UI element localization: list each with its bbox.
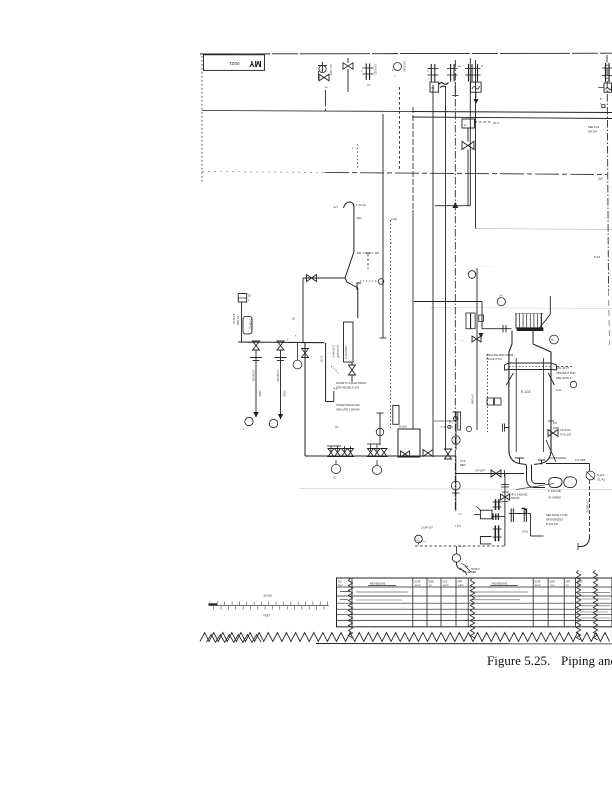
block valve on x=456 drop <box>455 456 457 511</box>
svg-text:INSULATE 2-DR-044: INSULATE 2-DR-044 <box>336 409 360 412</box>
svg-text:x: x <box>427 70 429 73</box>
svg-text:BY: BY <box>429 585 432 587</box>
svg-text:l d.: l d. <box>367 83 371 87</box>
left side nozzle <box>505 427 509 429</box>
svg-text:x [x] x: x [x] x <box>455 525 462 528</box>
svg-text:CONDENSATE: CONDENSATE <box>549 457 567 460</box>
svg-text:SC-41: SC-41 <box>597 478 605 482</box>
svg-text:Piping and: Piping and <box>561 653 612 668</box>
drain valve pair 1 <box>330 446 332 452</box>
pump suction vertical x=505 <box>504 474 506 547</box>
valve cluster V3 x=368 <box>365 64 367 81</box>
valve bars stack B <box>494 526 496 542</box>
svg-text:- x -: - x - <box>286 339 290 342</box>
drop line 2 with hose connection <box>275 357 287 359</box>
svg-text:DR 104: DR 104 <box>588 130 597 134</box>
header end elbow down <box>325 343 327 402</box>
valve cluster V4 x=397 <box>394 63 402 71</box>
instrument air dashed line y=546 <box>415 545 505 547</box>
svg-text:SEE 5-24: SEE 5-24 <box>588 125 600 129</box>
dotted instrument line x=390 <box>390 220 392 428</box>
thermowell rect pair <box>466 313 470 329</box>
svg-text:2-CW-013: 2-CW-013 <box>249 319 251 330</box>
controller bubble LC <box>415 535 423 543</box>
elbow down to header <box>302 278 304 342</box>
svg-text:2-P-1081-2": 2-P-1081-2" <box>586 500 589 513</box>
vertical pipe x=383 <box>382 114 384 338</box>
dotted stub above hook <box>357 144 359 170</box>
svg-text:STEAM TRACE AND: STEAM TRACE AND <box>336 404 360 407</box>
CWR labelled capsule <box>243 316 252 334</box>
bottoms pipe y=456 <box>305 455 456 457</box>
hook vent pipe <box>344 202 354 208</box>
svg-text:. . . . . . . . . .: . . . . . . . . . . <box>478 264 493 268</box>
sample bubble B <box>372 465 381 474</box>
svg-text:1-T2-16: 1-T2-16 <box>356 203 366 207</box>
svg-text:{ x-x: { x-x <box>459 545 464 548</box>
vessel shell <box>509 344 551 465</box>
bottom outlet pipe <box>526 465 528 480</box>
riser to bottoms line <box>304 342 306 456</box>
control valve cluster V1 x=324 <box>318 65 327 67</box>
svg-text:APP: APP <box>458 581 463 584</box>
svg-text:LG: LG <box>448 420 452 423</box>
level glass column <box>379 413 381 445</box>
Z-bend pipe <box>303 252 354 278</box>
right edge valve cluster x=606 <box>605 63 607 82</box>
svg-text:CKD: CKD <box>550 585 555 587</box>
valve on riser <box>302 349 309 358</box>
svg-text:4x7: 4x7 <box>334 205 339 209</box>
cross fitting <box>501 494 510 500</box>
instrument box x=475 <box>471 82 482 92</box>
tube bundle flange bars <box>492 514 494 520</box>
faint scan line y=489 <box>300 489 612 490</box>
left bottom nozzle <box>515 457 524 459</box>
svg-text:(92): (92) <box>357 216 362 220</box>
svg-text:REV: REV <box>338 585 343 587</box>
svg-text:BY: BY <box>566 585 569 587</box>
svg-text:P-104 A/B: P-104 A/B <box>546 522 558 526</box>
revision table frame <box>337 578 612 627</box>
branch y=421 <box>434 420 455 422</box>
drawing top border line <box>200 52 612 55</box>
drop x=590 <box>589 464 591 472</box>
svg-text:DATE: DATE <box>535 581 541 584</box>
block valve at drum outlet <box>423 450 433 457</box>
svg-text:2-DR-044-2: 2-DR-044-2 <box>332 345 335 358</box>
dash-dot line x=455 <box>454 60 456 511</box>
svg-text:TRACE (TYP): TRACE (TYP) <box>486 358 502 361</box>
vertical pipe x=413 <box>412 107 414 210</box>
svg-text:4"x3": 4"x3" <box>460 459 466 463</box>
gauge glass rect <box>458 412 461 430</box>
svg-text:LO: LO <box>333 477 336 480</box>
svg-text:x: x <box>248 299 250 302</box>
vertical pipe x=475 <box>475 60 477 229</box>
valve bars stack A <box>495 499 497 510</box>
right bottom nozzle <box>538 459 545 461</box>
vessel top flange (dark) <box>517 328 543 331</box>
svg-text:2-LNF-107: 2-LNF-107 <box>421 527 434 530</box>
svg-text:PG: PG <box>553 421 557 425</box>
svg-text:MIN. 10 FT: MIN. 10 FT <box>556 366 569 370</box>
instrument bubble TI-31 <box>293 360 302 369</box>
faint scan line y=308 <box>430 308 612 309</box>
vertical tear zigzags through table <box>348 578 352 638</box>
torn edge zigzag <box>200 633 610 642</box>
handwritten note scribble <box>439 83 449 85</box>
tray ring band <box>509 362 551 364</box>
svg-text:4-CW-011: 4-CW-011 <box>232 314 234 325</box>
svg-text:(2): (2) <box>335 425 338 429</box>
vertical bowtie x=448 <box>445 449 452 459</box>
svg-text:D-104: D-104 <box>399 425 407 429</box>
svg-text:HOSE: HOSE <box>282 390 285 397</box>
scale bar <box>209 605 329 607</box>
vertical pipe x=470 <box>469 58 471 206</box>
svg-text:0021: 0021 <box>229 61 240 66</box>
header branch valves <box>253 341 260 350</box>
vertical pipe x=433 <box>432 85 434 450</box>
long dash-dot boundary line y=171 <box>202 172 325 173</box>
valve cluster V7 x=473 <box>468 64 470 82</box>
svg-text:2-P-1066: 2-P-1066 <box>471 394 474 405</box>
svg-text:DATE: DATE <box>415 581 421 584</box>
svg-text:DATE: DATE <box>458 584 464 587</box>
svg-text:+: + <box>391 241 393 245</box>
svg-text:S-113: S-113 <box>597 473 605 477</box>
svg-text:ss: ss <box>325 86 328 89</box>
gauge boxes <box>487 398 494 405</box>
gate valve V2 x=348 <box>343 63 353 69</box>
vessel neck <box>511 331 513 345</box>
svg-text:z: z <box>352 147 354 150</box>
reflux line y=474 <box>456 473 524 475</box>
svg-text:N-12: N-12 <box>556 389 562 392</box>
svg-text:APPD: APPD <box>535 584 541 587</box>
inner shell walls <box>515 358 517 452</box>
small drain box <box>480 537 491 544</box>
svg-text:SEE NOTE 3: SEE NOTE 3 <box>556 376 572 380</box>
svg-text:LI: LI <box>464 123 467 127</box>
CWR spec block <box>238 294 247 303</box>
spool piece right <box>509 513 527 515</box>
vertical pipe x=445.5 <box>445 86 447 450</box>
svg-text:d: d <box>481 64 483 68</box>
svg-text:TO SEWER: TO SEWER <box>463 571 476 574</box>
dotted gauge line on shell <box>487 354 489 432</box>
cooling water header y=342 <box>238 341 325 344</box>
svg-text:SLOPE TO CLEAR DRAIN: SLOPE TO CLEAR DRAIN <box>336 382 366 385</box>
svg-text:$: $ <box>600 97 602 101</box>
dashed bubble (2) <box>466 426 471 431</box>
drain pigtail pump <box>452 554 460 562</box>
flange ticks on inlet <box>502 325 504 333</box>
bowtie below thermowell <box>472 336 481 342</box>
table column lines <box>351 578 353 627</box>
svg-text:x1-DR-041: x1-DR-041 <box>336 345 339 357</box>
sample bubble A <box>331 464 340 473</box>
valve to battery limit <box>548 430 558 437</box>
svg-text:CKD: CKD <box>443 582 448 584</box>
corner bracket <box>357 283 361 290</box>
vessel top hatch platform <box>516 313 543 315</box>
pump scrawl P-104 <box>549 477 562 487</box>
leader from lug to note <box>557 366 573 368</box>
reboiler exchanger shell <box>480 510 492 519</box>
dotted branch y=427 <box>441 426 453 428</box>
svg-text:FOR VESSEL E-103: FOR VESSEL E-103 <box>336 387 360 390</box>
svg-text:150#: 150# <box>553 426 559 430</box>
svg-text:2-CW-022: 2-CW-022 <box>276 370 279 382</box>
svg-text:l = l: l = l <box>458 513 462 516</box>
svg-text:HOSE: HOSE <box>258 390 261 397</box>
table row lines <box>337 586 612 588</box>
svg-text:2-P-1080: 2-P-1080 <box>575 459 586 462</box>
svg-text:3-VG-046-2": 3-VG-046-2" <box>345 345 348 359</box>
left border (dotted) <box>201 56 203 182</box>
instrument bubble at neck <box>550 335 559 344</box>
svg-text:PI: PI <box>552 338 555 342</box>
svg-text:AT GRADE: AT GRADE <box>548 496 561 500</box>
svg-text:WINTERIZING: WINTERIZING <box>546 518 563 522</box>
inline valve on y=278 <box>307 275 317 282</box>
svg-text:3-P-1079: 3-P-1079 <box>560 428 571 432</box>
svg-text:P-104 A/B: P-104 A/B <box>548 489 561 493</box>
table row smudges <box>340 591 350 593</box>
svg-text:1-CW: 1-CW <box>320 356 323 363</box>
gauge column x=456 y=412-446 <box>455 412 457 450</box>
svg-text:Figure 5.25.: Figure 5.25. <box>487 653 550 668</box>
svg-text:TO CWR: TO CWR <box>236 316 238 326</box>
svg-text:STRAIGHT RUN: STRAIGHT RUN <box>556 371 576 375</box>
svg-text:APP: APP <box>566 581 571 584</box>
svg-text:os: os <box>458 65 461 68</box>
svg-text:DWN: DWN <box>429 582 435 584</box>
svg-text:FI: FI <box>432 86 435 90</box>
main header pipe line y=111 <box>202 111 412 112</box>
dotted leader arc <box>331 366 339 374</box>
svg-text:(N-5): (N-5) <box>522 531 528 534</box>
product line y=463 <box>546 463 590 465</box>
instrument bubble on x477 <box>468 271 476 279</box>
instrument box FI x=434 <box>430 82 439 92</box>
svg-text:24": 24" <box>598 177 604 181</box>
dash-dot line x=607 <box>607 55 609 290</box>
seal pot <box>393 405 399 424</box>
svg-text:APPD: APPD <box>415 584 421 587</box>
instrument box LI <box>462 119 475 128</box>
bottom sheet line under tear <box>316 643 612 645</box>
svg-text:2-P-1031: 2-P-1031 <box>374 64 378 75</box>
svg-text:E3: E3 <box>248 295 252 298</box>
svg-text:NOTE 9: NOTE 9 <box>471 568 480 571</box>
svg-text:SEE NOTE 7 FOR: SEE NOTE 7 FOR <box>546 513 568 517</box>
svg-text:MY: MY <box>249 59 262 68</box>
control valve bubble FV <box>586 471 595 480</box>
svg-text:REVISIONS: REVISIONS <box>492 582 507 586</box>
svg-text:REVISIONS: REVISIONS <box>370 582 385 586</box>
skirt support legs <box>506 373 513 385</box>
svg-text:FEET: FEET <box>264 614 271 618</box>
valve pair 4 <box>381 449 387 457</box>
svg-text:2-CW-021: 2-CW-021 <box>252 370 255 382</box>
svg-text:TO E-105: TO E-105 <box>560 433 572 437</box>
title box <box>204 55 265 71</box>
spec-break labelled pipe box <box>344 322 354 362</box>
svg-text:3-P-1042: 3-P-1042 <box>403 61 407 72</box>
dotted leader y=281 with bubble <box>360 280 378 282</box>
svg-text:x 1-BD-051: x 1-BD-051 <box>507 497 520 500</box>
diagonal leader to pump note <box>516 484 554 490</box>
valve pair 3 <box>370 444 372 451</box>
svg-text:N-16: N-16 <box>594 255 601 259</box>
svg-text:x: x <box>243 428 245 431</box>
branch line y=206 with arrow <box>435 205 471 207</box>
feed drum D-1 <box>398 429 420 457</box>
svg-text:x: x <box>295 335 297 338</box>
vertical pipe x=477 lower <box>476 268 478 430</box>
davit arm <box>539 314 550 328</box>
svg-text:2-P-1023: 2-P-1023 <box>329 64 333 76</box>
svg-text:NO: NO <box>338 581 342 584</box>
drain valve pair 2 <box>344 446 346 452</box>
svg-text:~: ~ <box>394 74 396 78</box>
relief valve pair <box>462 142 474 150</box>
dash-dot branch y=253 <box>357 252 381 254</box>
valve below spec box <box>349 365 356 375</box>
gate valve bars V6 x=452 <box>450 64 452 82</box>
svg-text:x: x <box>361 69 363 73</box>
svg-text:(N-7): (N-7) <box>493 121 499 125</box>
support lugs <box>505 363 557 370</box>
svg-text:+3(1): +3(1) <box>391 217 398 221</box>
svg-text:2-V: 2-V <box>499 295 503 298</box>
vent circle <box>497 298 505 306</box>
svg-text:26: 26 <box>292 318 295 321</box>
capsule on x477 <box>479 315 484 322</box>
svg-text:DWN: DWN <box>550 582 556 584</box>
secondary header line y=117-124 <box>412 117 612 119</box>
drop line 1 with hose connection <box>250 357 262 359</box>
svg-text:RED: RED <box>460 463 466 467</box>
svg-text:- - -: - - - <box>460 340 464 343</box>
svg-text:l: l <box>428 77 429 81</box>
spec break marks x=455 <box>454 82 456 95</box>
corner to right <box>530 514 532 537</box>
svg-text:E-103: E-103 <box>521 390 531 394</box>
down arrow on inlet branch <box>479 333 484 339</box>
svg-text:SCALE: SCALE <box>264 594 273 598</box>
inlet pipe into vessel neck <box>414 301 482 303</box>
svg-text:x-x-x-x: x-x-x-x <box>419 541 427 543</box>
svg-text:3-P-1077: 3-P-1077 <box>475 469 486 473</box>
gate valve bars V5 x=433 <box>430 64 432 82</box>
faint scan line y=229 <box>475 229 612 230</box>
svg-text:APPD: APPD <box>443 584 449 587</box>
svg-text:INSULATE AND STEAM: INSULATE AND STEAM <box>486 354 513 357</box>
elbow J <box>578 536 590 547</box>
